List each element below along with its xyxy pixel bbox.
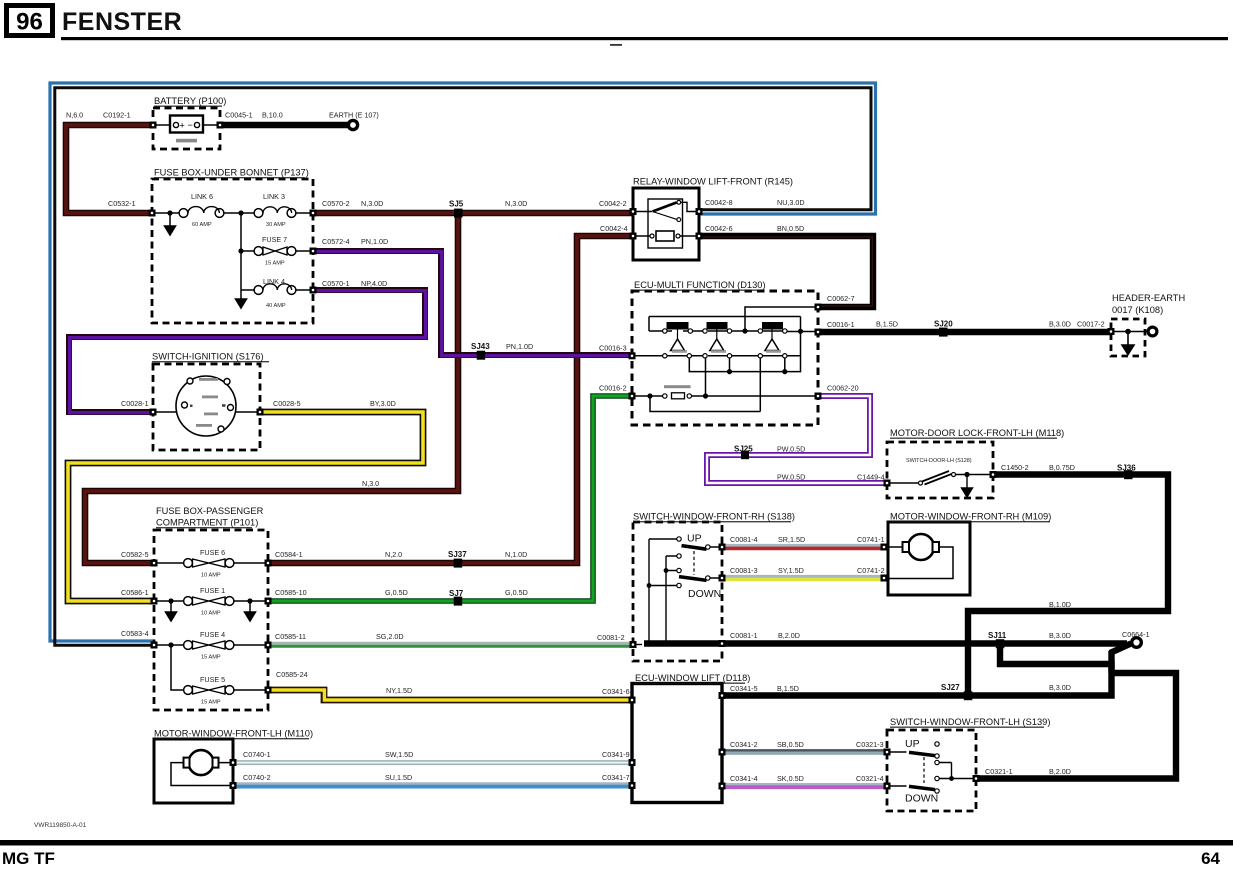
svg-text:C0081-4: C0081-4 <box>730 535 758 544</box>
connector C0081-1 <box>719 631 758 647</box>
svg-text:SR,1.5D: SR,1.5D <box>778 535 805 544</box>
svg-text:N,3.0D: N,3.0D <box>505 199 527 208</box>
wire B,2.0D switch S139 C0321-1 up to junction network <box>976 673 1176 779</box>
junction SJ11 <box>996 639 1005 648</box>
fuse box P137 <box>152 168 313 324</box>
svg-text:C0045-1: C0045-1 <box>225 111 253 120</box>
ground arrow below fuse 1 left <box>166 601 177 621</box>
D130 junction dots <box>647 328 803 398</box>
svg-text:96: 96 <box>16 9 43 36</box>
connector C0016-3 <box>599 344 636 360</box>
connector C0741-1 <box>857 535 888 551</box>
svg-text:NY,1.5D: NY,1.5D <box>386 686 412 695</box>
connector C0042-8 <box>696 198 733 215</box>
svg-text:LINK 3: LINK 3 <box>263 192 285 201</box>
K108 internal earth wire <box>1111 331 1148 333</box>
svg-text:MOTOR-WINDOW-FRONT-RH (M109): MOTOR-WINDOW-FRONT-RH (M109) <box>890 512 1051 522</box>
svg-text:FENSTER: FENSTER <box>62 8 182 36</box>
svg-text:DOWN: DOWN <box>688 588 721 600</box>
connector C0341-2 <box>719 740 758 756</box>
svg-text:DOWN: DOWN <box>905 793 938 805</box>
connector C1450-2 <box>990 463 1029 478</box>
D130 resistor element on C0016-2 line <box>663 385 692 399</box>
connector C0045-1 <box>217 111 253 129</box>
svg-text:N,1.0D: N,1.0D <box>505 550 527 559</box>
svg-text:BATTERY (P100): BATTERY (P100) <box>154 96 226 106</box>
svg-text:SU,1.5D: SU,1.5D <box>385 773 412 782</box>
S138 UP blade <box>677 533 710 559</box>
S139 internal stubs <box>887 752 976 786</box>
svg-text:NU,3.0D: NU,3.0D <box>777 198 805 207</box>
svg-text:SJ27: SJ27 <box>941 683 960 692</box>
P137 internal bus wires <box>152 213 313 290</box>
wire SY,1.5D switch S138 to motor M109 <box>722 577 884 580</box>
connector C0081-2 <box>597 633 637 648</box>
svg-text:C0081-3: C0081-3 <box>730 566 758 575</box>
M110 motor symbol <box>171 750 233 785</box>
svg-text:B,0.75D: B,0.75D <box>1049 463 1075 472</box>
wire B,0.75D / B,1.0D door-lock M118 via SJ36 down and left <box>968 475 1168 696</box>
svg-text:C0570-2: C0570-2 <box>322 199 350 208</box>
D130 internal bus lines <box>632 307 818 412</box>
svg-text:ECU-WINDOW LIFT (D118): ECU-WINDOW LIFT (D118) <box>635 673 750 683</box>
svg-text:C0532-1: C0532-1 <box>108 199 136 208</box>
wire N,2.0 / N,1.0D fuse 6 to relay C0042-4 via SJ37 <box>268 236 633 563</box>
page number box 96 <box>7 6 53 36</box>
wire NY,1.5D fuse 5 to ECU-window lift C0341-6 <box>268 690 632 700</box>
svg-text:C0341-6: C0341-6 <box>602 687 630 696</box>
connector C0570-2 <box>310 199 350 217</box>
svg-text:C1449-4: C1449-4 <box>857 473 885 482</box>
connector C0042-4 <box>600 224 637 240</box>
svg-text:C0341-7: C0341-7 <box>602 773 630 782</box>
wire B,1.5D / B,3.0D ECU D118 C0341-5 via SJ27 <box>722 651 1112 696</box>
earth eyelet E107 <box>329 111 379 130</box>
svg-text:15 AMP: 15 AMP <box>201 655 221 661</box>
svg-text:C0016-3: C0016-3 <box>599 344 627 353</box>
svg-text:N,3.0D: N,3.0D <box>361 199 383 208</box>
svg-text:FUSE BOX-UNDER BONNET (P137): FUSE BOX-UNDER BONNET (P137) <box>154 168 309 178</box>
S138 junction dots <box>647 568 669 588</box>
svg-text:SJ36: SJ36 <box>1117 464 1136 473</box>
door lock M118 box <box>887 428 1064 498</box>
connector C0321-4 marker <box>884 783 891 790</box>
svg-text:C0583-4: C0583-4 <box>121 629 149 638</box>
ECU window lift D118 box <box>632 673 750 803</box>
svg-text:C0341-2: C0341-2 <box>730 740 758 749</box>
svg-text:B,1.5D: B,1.5D <box>876 320 898 329</box>
battery internal cell symbol <box>153 116 220 143</box>
S139 UP blade <box>905 738 939 765</box>
connector C0062-7 <box>815 294 855 311</box>
svg-text:15 AMP: 15 AMP <box>201 700 221 706</box>
svg-text:C0028-5: C0028-5 <box>273 399 301 408</box>
K108 earth arrow <box>1122 332 1134 355</box>
wire B,1.5D / B,3.0D ECU C0016-1 to header earth via SJ20 <box>818 329 1111 335</box>
svg-text:G,0.5D: G,0.5D <box>505 588 528 597</box>
S138 internal rails <box>633 539 722 645</box>
wire SG,2.0D fuse 4 to switch S138 C0081-2 <box>268 644 633 646</box>
svg-text:SJ43: SJ43 <box>471 342 490 351</box>
relay R145 coil <box>633 231 699 241</box>
connector C0341-9 <box>602 750 636 766</box>
svg-text:0017 (K108): 0017 (K108) <box>1112 305 1163 315</box>
svg-text:N,3.0: N,3.0 <box>362 479 379 488</box>
connector C0585-10 <box>265 588 307 605</box>
svg-text:C0081-1: C0081-1 <box>730 631 758 640</box>
svg-text:C0582-5: C0582-5 <box>121 550 149 559</box>
connector C0341-7 <box>602 773 636 789</box>
wire NP,4.0D link 4 to ignition switch C0028-1 <box>69 290 426 413</box>
connector C0741-2 <box>857 566 888 582</box>
svg-text:C0016-1: C0016-1 <box>827 320 855 329</box>
svg-text:FUSE 5: FUSE 5 <box>200 675 225 684</box>
svg-text:LINK 6: LINK 6 <box>191 192 213 201</box>
svg-text:C0017-2: C0017-2 <box>1077 320 1105 329</box>
svg-text:HEADER-EARTH: HEADER-EARTH <box>1112 293 1185 303</box>
M109 motor symbol <box>884 534 953 579</box>
junction SJ25 <box>741 451 749 460</box>
svg-text:BY,3.0D: BY,3.0D <box>370 399 396 408</box>
svg-text:FUSE 1: FUSE 1 <box>200 586 225 595</box>
svg-text:C0585-10: C0585-10 <box>275 588 307 597</box>
svg-text:C0341-9: C0341-9 <box>602 750 630 759</box>
svg-text:C0016-2: C0016-2 <box>599 384 627 393</box>
ignition switch S176 box <box>152 352 269 451</box>
fusible link LINK 6 <box>179 192 224 228</box>
svg-text:C0062-7: C0062-7 <box>827 294 855 303</box>
eyelet C0664-1 <box>1122 630 1150 647</box>
connector C0341-6 <box>602 687 636 704</box>
svg-text:BN,0.5D: BN,0.5D <box>777 224 804 233</box>
D130 relay unit 3 <box>758 322 787 358</box>
connector C0583-4 <box>121 629 158 649</box>
D130 relay unit 1 <box>663 322 693 358</box>
relay R145 box <box>633 177 793 261</box>
svg-text:SJ20: SJ20 <box>934 320 953 329</box>
connector C0585-24 <box>265 670 308 694</box>
wire SW,1.5D motor M110 to D118 C0341-9 <box>233 760 632 765</box>
junction dot P137 centre rail top <box>238 210 243 215</box>
svg-text:C0585-24: C0585-24 <box>276 670 308 679</box>
junction dots P101 <box>168 598 252 647</box>
svg-text:C0028-1: C0028-1 <box>121 399 149 408</box>
connector C0532-1 <box>108 199 156 217</box>
svg-text:SJ37: SJ37 <box>448 550 467 559</box>
svg-text:RELAY-WINDOW LIFT-FRONT (R145): RELAY-WINDOW LIFT-FRONT (R145) <box>633 177 793 187</box>
svg-text:40 AMP: 40 AMP <box>266 303 286 309</box>
footer rule <box>0 840 1233 846</box>
svg-text:C0042-6: C0042-6 <box>705 224 733 233</box>
svg-text:MOTOR-WINDOW-FRONT-LH (M110): MOTOR-WINDOW-FRONT-LH (M110) <box>154 729 313 739</box>
connector C0570-1 <box>310 279 350 294</box>
svg-text:SW,1.5D: SW,1.5D <box>385 750 413 759</box>
wire BN,0.5D relay C0042-6 down to ECU C0062-7 <box>699 236 873 307</box>
battery P100 box <box>153 96 226 149</box>
ECU D130 box <box>632 280 818 425</box>
svg-text:15 AMP: 15 AMP <box>265 261 285 267</box>
svg-text:ECU-MULTI FUNCTION (D130): ECU-MULTI FUNCTION (D130) <box>634 280 766 290</box>
svg-text:B,3.0D: B,3.0D <box>1049 683 1071 692</box>
fuse FUSE 6 <box>184 548 234 579</box>
svg-text:PN,1.0D: PN,1.0D <box>506 342 533 351</box>
svg-text:SJ25: SJ25 <box>734 445 753 454</box>
window motor M109 box <box>888 512 1051 596</box>
svg-text:C0192-1: C0192-1 <box>103 111 131 120</box>
svg-text:C0570-1: C0570-1 <box>322 279 350 288</box>
svg-text:C1450-2: C1450-2 <box>1001 463 1029 472</box>
M118 door switch symbol <box>887 471 993 497</box>
wire SU,1.5D motor M110 to D118 C0341-7 <box>233 784 632 787</box>
svg-text:B,2.0D: B,2.0D <box>1049 767 1071 776</box>
svg-text:NP,4.0D: NP,4.0D <box>361 279 387 288</box>
svg-text:FUSE BOX-PASSENGER: FUSE BOX-PASSENGER <box>156 506 264 516</box>
connector C0016-1 <box>815 320 855 336</box>
svg-text:SWITCH-WINDOW-FRONT-LH (S139): SWITCH-WINDOW-FRONT-LH (S139) <box>890 717 1050 727</box>
svg-text:G,0.5D: G,0.5D <box>385 588 408 597</box>
svg-text:C0740-2: C0740-2 <box>243 773 271 782</box>
fusible link LINK 3 <box>254 192 296 228</box>
connector C0321-3 marker <box>884 749 891 756</box>
svg-text:C0062-20: C0062-20 <box>827 384 859 393</box>
svg-text:C0042-8: C0042-8 <box>705 198 733 207</box>
svg-text:EARTH (E 107): EARTH (E 107) <box>329 111 379 120</box>
svg-text:C0585-11: C0585-11 <box>275 632 306 641</box>
small dash under header rule <box>610 44 622 46</box>
wire B,2.0D switch S138 C0081-1 via SJ11 to eyelet C0664-1 <box>722 640 1127 646</box>
svg-text:60 AMP: 60 AMP <box>192 222 212 228</box>
svg-text:SWITCH-WINDOW-FRONT-RH (S138): SWITCH-WINDOW-FRONT-RH (S138) <box>633 512 795 522</box>
svg-text:C0572-4: C0572-4 <box>322 237 350 246</box>
svg-text:UP: UP <box>687 533 702 545</box>
S139 mechanical link dashed <box>923 757 925 783</box>
junction SJ7 <box>454 597 463 606</box>
svg-text:−: − <box>188 120 193 130</box>
svg-text:B,1.5D: B,1.5D <box>777 684 799 693</box>
svg-text:N,2.0: N,2.0 <box>385 550 402 559</box>
connector C0042-6 <box>696 224 733 240</box>
wire PN,1.0D fuse 7 to ECU C0016-3 via SJ43 <box>313 251 630 356</box>
connector C0572-4 <box>310 237 350 255</box>
svg-text:C0741-1: C0741-1 <box>857 535 885 544</box>
svg-text:+: + <box>180 121 185 131</box>
svg-text:N,6.0: N,6.0 <box>66 111 83 120</box>
connector C0017-2 marker <box>1108 328 1115 335</box>
fuse FUSE 1 <box>184 586 234 617</box>
connector C1449-4 <box>857 473 891 487</box>
connector C0584-1 <box>265 550 303 567</box>
svg-text:PW,0.5D: PW,0.5D <box>777 445 805 454</box>
fuse FUSE 7 <box>254 235 296 267</box>
junction dot P137 centre rail fuse7 <box>238 248 243 253</box>
svg-text:B,3.0D: B,3.0D <box>1049 320 1071 329</box>
svg-text:C0321-3: C0321-3 <box>856 740 884 749</box>
S139 junction dot <box>949 776 954 781</box>
S139 DOWN blade <box>905 776 939 804</box>
connector C0028-5 <box>257 399 301 416</box>
wire SB,0.5D D118 C0341-2 to switch S139 <box>722 751 887 754</box>
svg-text:MG TF: MG TF <box>2 849 55 868</box>
K108 junction dot <box>1125 329 1131 335</box>
svg-text:C0586-1: C0586-1 <box>121 588 149 597</box>
wire diagonal stub into eyelet C0664-1 <box>1110 644 1131 654</box>
K108 eyelet terminal <box>1148 327 1157 336</box>
S138 internal B bus <box>644 640 722 646</box>
header earth K108 box <box>1111 293 1185 356</box>
wire B,10.0 battery to earth E107 <box>220 122 349 128</box>
svg-text:SJ5: SJ5 <box>449 200 464 209</box>
svg-text:PN,1.0D: PN,1.0D <box>361 237 388 246</box>
wire SR,1.5D switch S138 to motor M109 <box>722 546 884 549</box>
svg-text:FUSE 7: FUSE 7 <box>262 235 287 244</box>
svg-text:C0321-4: C0321-4 <box>856 774 884 783</box>
junction dot P137 link6 left <box>167 210 172 215</box>
window switch S139 box <box>887 717 1050 811</box>
S138 DOWN blade <box>677 568 721 600</box>
svg-text:FUSE 6: FUSE 6 <box>200 548 225 557</box>
svg-text:SJ11: SJ11 <box>988 631 1007 640</box>
svg-text:UP: UP <box>905 738 920 750</box>
junction SJ20 <box>939 328 948 337</box>
junction SJ43 <box>477 351 486 360</box>
P101 internal wires <box>154 563 268 690</box>
junction SJ36 <box>1124 470 1133 479</box>
wire B,3.0D SJ11 lower loop to eyelet <box>1000 644 1112 674</box>
fuse FUSE 5 <box>184 675 234 706</box>
svg-text:PW,0.5D: PW,0.5D <box>777 473 805 482</box>
ignition switch rotary symbol <box>153 376 260 436</box>
fusible link LINK 4 <box>254 277 296 309</box>
svg-text:SJ7: SJ7 <box>449 589 464 598</box>
svg-text:C0341-4: C0341-4 <box>730 774 758 783</box>
svg-text:MOTOR-DOOR LOCK-FRONT-LH (M118: MOTOR-DOOR LOCK-FRONT-LH (M118) <box>890 428 1064 438</box>
ground arrow below fuse 1 right <box>245 601 256 621</box>
ground arrow below link 4 <box>236 290 247 308</box>
connector C0582-5 <box>121 550 158 567</box>
connector C0042-2 <box>599 199 637 215</box>
svg-text:C0740-1: C0740-1 <box>243 750 271 759</box>
junction SJ37 <box>454 559 463 568</box>
svg-text:B,3.0D: B,3.0D <box>1049 631 1071 640</box>
junction SJ5 <box>454 209 463 218</box>
relay R145 inner frame <box>648 199 683 248</box>
wire N,6.0 battery feed from C0532-1 up to C0192-1 <box>66 125 153 213</box>
connector C0740-1 <box>230 750 271 766</box>
connector C0062-20 <box>815 384 859 400</box>
wire BY,3.0D ignition switch to fuse 1 C0586-1 <box>68 412 423 601</box>
svg-text:30 AMP: 30 AMP <box>266 222 286 228</box>
svg-text:C0042-4: C0042-4 <box>600 224 628 233</box>
svg-text:LINK 4: LINK 4 <box>263 277 285 286</box>
ground arrow below link 6 <box>165 213 176 235</box>
svg-text:SB,0.5D: SB,0.5D <box>777 740 804 749</box>
svg-text:B,1.0D: B,1.0D <box>1049 600 1071 609</box>
svg-text:C0664-1: C0664-1 <box>1122 630 1150 639</box>
svg-text:B,10.0: B,10.0 <box>262 111 283 120</box>
svg-text:SK,0.5D: SK,0.5D <box>777 774 804 783</box>
svg-text:FUSE 4: FUSE 4 <box>200 630 225 639</box>
connector C0341-4 <box>719 774 758 790</box>
svg-text:10 AMP: 10 AMP <box>201 573 221 579</box>
svg-text:COMPARTMENT (P101): COMPARTMENT (P101) <box>156 518 258 528</box>
connector C0341-5 <box>719 684 758 699</box>
connector C0081-3 <box>719 566 758 582</box>
connector C0321-1 <box>973 767 1013 782</box>
svg-text:C0741-2: C0741-2 <box>857 566 885 575</box>
wire N,3.0 SJ5 branch down-left to fuse box P101 C0582-5 <box>85 213 458 563</box>
svg-text:B,2.0D: B,2.0D <box>778 631 800 640</box>
connector C0028-1 <box>121 399 157 416</box>
svg-text:SG,2.0D: SG,2.0D <box>376 632 404 641</box>
connector C0081-4 <box>719 535 758 551</box>
svg-text:C0321-1: C0321-1 <box>985 767 1013 776</box>
D130 relay unit 2 <box>703 322 732 358</box>
svg-text:C0042-2: C0042-2 <box>599 199 627 208</box>
svg-text:C0081-2: C0081-2 <box>597 633 625 642</box>
svg-text:64: 64 <box>1201 849 1220 868</box>
window motor M110 box <box>154 729 313 804</box>
S138 mechanical link dashed <box>693 551 695 575</box>
svg-text:SWITCH-IGNITION (S176): SWITCH-IGNITION (S176) <box>152 352 264 362</box>
connector C0585-11 <box>265 632 307 649</box>
svg-text:10 AMP: 10 AMP <box>201 611 221 617</box>
wire N,3.0D fuse box P137 to relay via SJ5 <box>313 210 633 217</box>
svg-text:VWR119850-A-01: VWR119850-A-01 <box>34 822 87 829</box>
window switch S138 box <box>633 512 795 662</box>
svg-text:C0584-1: C0584-1 <box>275 550 303 559</box>
fuse box P101 <box>154 506 268 710</box>
connector C0192-1 <box>103 111 157 129</box>
wire NU,3.0D big loop relay C0042-8 around top-left to fuse4 C0583-4 <box>50 83 876 645</box>
svg-text:C0341-5: C0341-5 <box>730 684 758 693</box>
junction SJ27 <box>964 691 973 700</box>
wire G,0.5D fuse 1 via SJ7 to ECU C0016-2 <box>268 396 632 601</box>
connector C0740-2 <box>230 773 271 789</box>
connector C0016-2 <box>599 384 636 400</box>
svg-text:SWITCH-DOOR-LH (S128): SWITCH-DOOR-LH (S128) <box>906 458 972 464</box>
svg-text:SY,1.5D: SY,1.5D <box>778 566 804 575</box>
relay R145 switch blade <box>633 200 699 221</box>
fuse FUSE 4 <box>184 630 234 661</box>
connector C0586-1 <box>121 588 158 605</box>
header rule <box>61 37 1228 40</box>
wire SK,0.5D D118 C0341-4 to switch S139 <box>722 784 887 787</box>
wire PW,0.5D ECU C0062-20 to door-lock switch via SJ25 <box>707 396 887 483</box>
